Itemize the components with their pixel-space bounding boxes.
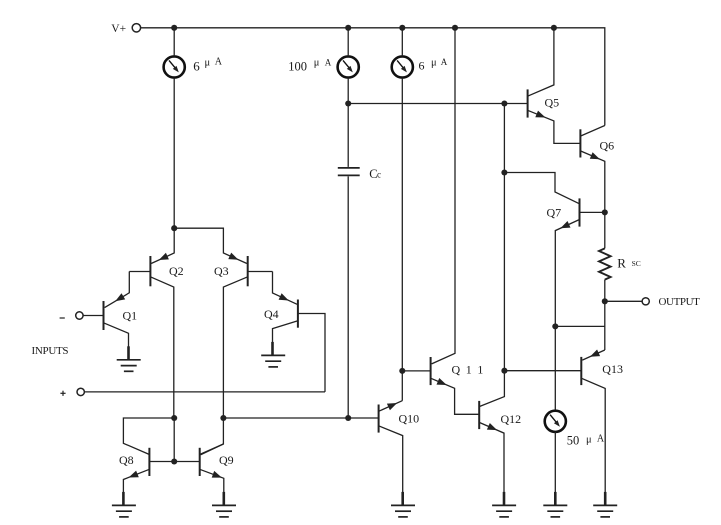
svg-text:SC: SC	[632, 259, 641, 268]
svg-text:6: 6	[193, 59, 200, 74]
svg-text:μ: μ	[314, 58, 320, 69]
svg-text:Q9: Q9	[219, 453, 234, 467]
svg-text:Q1: Q1	[123, 309, 138, 323]
svg-text:50: 50	[567, 434, 580, 448]
svg-text:Q5: Q5	[545, 96, 560, 110]
svg-text:100: 100	[288, 59, 307, 73]
svg-text:Q7: Q7	[547, 206, 562, 220]
svg-text:μ: μ	[205, 58, 211, 69]
svg-text:μ: μ	[586, 435, 592, 446]
svg-text:OUTPUT: OUTPUT	[659, 296, 701, 308]
svg-text:Q13: Q13	[602, 362, 623, 376]
svg-text:A: A	[441, 57, 448, 67]
svg-text:V+: V+	[111, 23, 126, 35]
svg-text:INPUTS: INPUTS	[32, 345, 69, 357]
svg-text:Q 1 1: Q 1 1	[452, 363, 485, 377]
svg-text:A: A	[597, 434, 605, 445]
svg-text:Q4: Q4	[264, 307, 279, 321]
svg-text:Q2: Q2	[169, 264, 184, 278]
svg-text:Q8: Q8	[119, 453, 134, 467]
svg-text:6: 6	[419, 59, 425, 73]
svg-text:Q10: Q10	[399, 412, 420, 426]
svg-text:A: A	[215, 57, 223, 68]
svg-text:Q12: Q12	[501, 412, 522, 426]
svg-text:Q6: Q6	[600, 139, 615, 153]
svg-text:c: c	[377, 170, 381, 180]
svg-text:Q3: Q3	[214, 264, 229, 278]
svg-text:μ: μ	[431, 58, 437, 69]
svg-text:A: A	[325, 58, 332, 68]
svg-text:R: R	[617, 256, 626, 271]
